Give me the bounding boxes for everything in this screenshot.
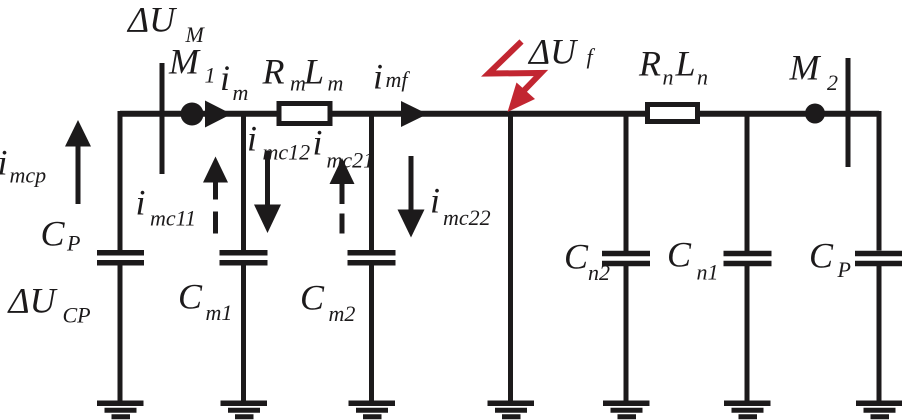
ground (Cn2 branch) (603, 403, 650, 417)
current arrow i_mc12 (down, solid) (254, 151, 281, 233)
svg-text:mc12: mc12 (263, 140, 311, 165)
wire: left vertical branch (Cp left) lower (118, 266, 123, 403)
svg-text:2: 2 (827, 70, 838, 95)
svg-text:mc21: mc21 (327, 148, 375, 173)
ground (Cm1 branch) (221, 403, 268, 417)
svg-text:M: M (168, 42, 201, 82)
current arrow i_mf (right) on bus (401, 101, 428, 127)
svg-text:ΔU: ΔU (527, 32, 578, 72)
fault symbol: red lightning arrow dU_f striking node F (489, 42, 542, 113)
svg-text:CP: CP (63, 303, 91, 328)
wire: Cm2 branch lower (369, 266, 374, 403)
svg-text:mcp: mcp (10, 163, 47, 188)
current arrow i_mc11 (up, dashed) (203, 157, 228, 234)
capacitor Cm1 plates (220, 253, 268, 263)
wire: left vertical branch (Cp left) upper (118, 111, 123, 251)
capacitor Cm2 plates (348, 253, 396, 263)
svg-text:f: f (587, 44, 596, 69)
svg-text:R: R (638, 44, 661, 84)
svg-text:i: i (373, 57, 383, 97)
svg-text:C: C (178, 277, 203, 317)
svg-text:P: P (66, 231, 80, 256)
svg-text:C: C (41, 214, 66, 254)
svg-text:mf: mf (386, 67, 411, 92)
node B: junction dot at M2 (805, 104, 825, 124)
capacitor CP right plates (855, 254, 902, 264)
wire: main top bus from left corner to right corner (120, 111, 879, 117)
svg-text:i: i (313, 123, 323, 163)
label dU_M (voltage at M1) (126, 0, 206, 47)
svg-text:L: L (303, 52, 324, 92)
svg-text:i: i (220, 58, 230, 98)
ground (Cp left branch) (97, 403, 144, 417)
ground (Cm2 branch) (349, 403, 396, 417)
svg-text:m: m (233, 80, 249, 105)
svg-text:n1: n1 (697, 260, 719, 285)
svg-text:n: n (663, 65, 674, 90)
svg-text:i: i (247, 119, 257, 159)
svg-text:ΔU: ΔU (126, 0, 177, 40)
current arrow i_mc21 (up, dashed) (330, 158, 355, 234)
svg-text:n: n (697, 65, 708, 90)
current arrow i_mc22 (down, solid) (398, 156, 425, 238)
svg-text:L: L (675, 44, 696, 84)
svg-text:m1: m1 (206, 300, 233, 325)
svg-text:i: i (430, 181, 440, 221)
svg-text:R: R (262, 52, 285, 92)
svg-text:n2: n2 (588, 260, 610, 285)
ground (Cp right branch) (856, 403, 902, 417)
wire: Cn2 branch lower (624, 266, 629, 402)
wire: Cm1 branch lower (241, 266, 246, 403)
svg-text:ΔU: ΔU (7, 281, 58, 321)
wire: Cn1 branch upper (745, 113, 750, 251)
svg-text:C: C (564, 237, 589, 277)
svg-text:1: 1 (205, 63, 216, 88)
label dU_f (fault voltage) (527, 32, 596, 72)
svg-text:m: m (328, 71, 344, 96)
measurement point M2 marker line (846, 58, 851, 167)
svg-text:C: C (667, 235, 692, 275)
ground (fault branch) (488, 403, 535, 417)
capacitor Cn1 plates (724, 254, 772, 264)
wire: Cn1 branch lower (745, 266, 750, 402)
wire: Cm1 branch upper (241, 113, 246, 251)
svg-text:mc22: mc22 (443, 205, 491, 230)
resistor-inductor RnLn box (648, 105, 698, 122)
svg-text:M: M (789, 48, 822, 88)
svg-text:P: P (837, 257, 851, 282)
label RmLm (262, 52, 344, 96)
wire: right vertical branch (Cp right) upper (877, 111, 882, 251)
resistor-inductor RmLm box (279, 104, 330, 124)
wire: Cn2 branch upper (624, 113, 629, 251)
measurement point M1 marker line (160, 63, 165, 174)
svg-text:i: i (0, 143, 8, 183)
label RnLn (638, 44, 708, 90)
svg-text:C: C (809, 236, 834, 276)
capacitor Cn2 plates (602, 254, 650, 264)
svg-text:mc11: mc11 (150, 206, 196, 231)
wire: right vertical branch (Cp right) lower (877, 266, 882, 403)
current arrow i_mcp (up, solid) (65, 120, 91, 204)
wire: fault branch (node F to ground) (508, 113, 513, 402)
svg-text:C: C (300, 278, 325, 318)
wire: Cm2 branch upper (369, 113, 374, 251)
label dU_CP (7, 281, 91, 328)
svg-text:m2: m2 (329, 301, 356, 326)
node A: junction dot at M1 (181, 103, 204, 126)
svg-text:i: i (136, 183, 146, 223)
ground (Cn1 branch) (724, 403, 771, 417)
current arrow i_m (right) on bus (205, 101, 232, 128)
capacitor CP left plates (97, 253, 144, 263)
